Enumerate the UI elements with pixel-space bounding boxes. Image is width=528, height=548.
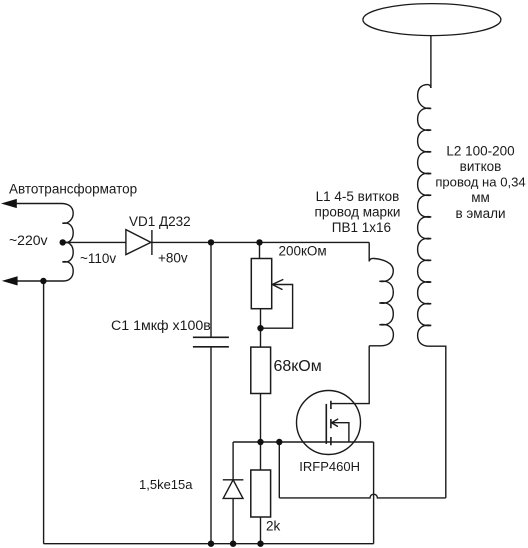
svg-text:Автотрансформатор: Автотрансформатор	[9, 182, 137, 197]
wire feedback up to gate node	[278, 442, 280, 498]
wire L2 feedback horizontal with hop over source wire	[279, 494, 446, 498]
svg-text:~110v: ~110v	[80, 251, 116, 266]
transistor Q1 IRFP460H circle	[297, 391, 361, 455]
autotransformer winding	[17, 204, 73, 282]
svg-text:VD1 Д232: VD1 Д232	[129, 214, 191, 229]
TVS diode 1,5ke15a	[223, 479, 244, 481]
potentiometer wiper arrow	[261, 285, 293, 329]
svg-text:L1 4-5 витков: L1 4-5 витков	[316, 189, 400, 204]
svg-text:провод марки: провод марки	[315, 205, 401, 220]
svg-text:200кОм: 200кОм	[279, 244, 327, 259]
resistor 68kOhm body	[251, 347, 271, 393]
inductor L2	[418, 85, 432, 326]
capacitor C1 top lead	[210, 242, 212, 337]
node 2k bottom rail	[257, 541, 263, 547]
mains terminal arrow top	[16, 203, 62, 205]
wire pot bottom to 68k	[260, 309, 262, 347]
svg-text:в эмали: в эмали	[455, 206, 505, 221]
svg-text:ПВ1 1x16: ПВ1 1x16	[332, 220, 391, 235]
node TVS bottom rail	[230, 541, 236, 547]
bottom rail	[44, 543, 374, 545]
node pot top	[256, 239, 262, 245]
capacitor C1 plates	[193, 336, 229, 338]
wire tap to diode anode	[63, 241, 126, 243]
wire left down from bottom terminal	[43, 281, 45, 544]
node gate feedback	[276, 439, 282, 445]
wire toroid to L2	[430, 36, 432, 88]
transistor body arrow	[332, 423, 349, 442]
gate and source horizontal wire	[233, 441, 374, 443]
node C1 top	[208, 239, 214, 245]
svg-text:IRFP460H: IRFP460H	[299, 459, 360, 474]
wire 68k to gate node	[260, 394, 262, 471]
wire L2 bottom to feedback vertical	[418, 325, 446, 498]
svg-text:витков: витков	[460, 159, 502, 174]
svg-text:+80v: +80v	[158, 250, 188, 265]
svg-text:2k: 2k	[266, 519, 281, 534]
svg-text:~220v: ~220v	[9, 232, 48, 248]
node gate divider	[257, 439, 263, 445]
toroid topload	[363, 4, 501, 36]
wire 2k bottom	[260, 517, 262, 544]
node C1 bottom rail	[208, 541, 214, 547]
mains terminal arrow bottom	[2, 276, 18, 285]
svg-text:мм: мм	[471, 190, 490, 205]
svg-text:L2 100-200: L2 100-200	[446, 144, 514, 159]
resistor 2k body	[251, 470, 271, 517]
potentiometer 200kOhm body	[251, 259, 271, 309]
wire MOSFET source to ground	[373, 442, 375, 544]
transistor gate bar	[325, 404, 327, 444]
node bottom terminal junction	[40, 278, 46, 284]
wire pot top lead	[259, 242, 261, 258]
wire TVS branch down	[232, 442, 234, 480]
wire diode to C1 node to pot node	[151, 241, 369, 243]
diode VD1	[126, 230, 151, 255]
transistor channel dashes	[330, 401, 332, 446]
wire L1 bottom to drain	[331, 346, 369, 404]
inductor L1	[369, 258, 393, 345]
node pot wiper join	[257, 325, 263, 331]
svg-text:провод на 0,34: провод на 0,34	[435, 175, 525, 190]
capacitor C1 bottom lead	[210, 347, 212, 544]
svg-text:C1 1мкф x100в: C1 1мкф x100в	[111, 318, 211, 334]
wire top rail corner down to L1	[368, 242, 370, 261]
node transformer tap	[60, 239, 66, 245]
svg-text:68кОм: 68кОм	[274, 358, 322, 375]
svg-text:1,5ke15a: 1,5ke15a	[139, 477, 193, 492]
